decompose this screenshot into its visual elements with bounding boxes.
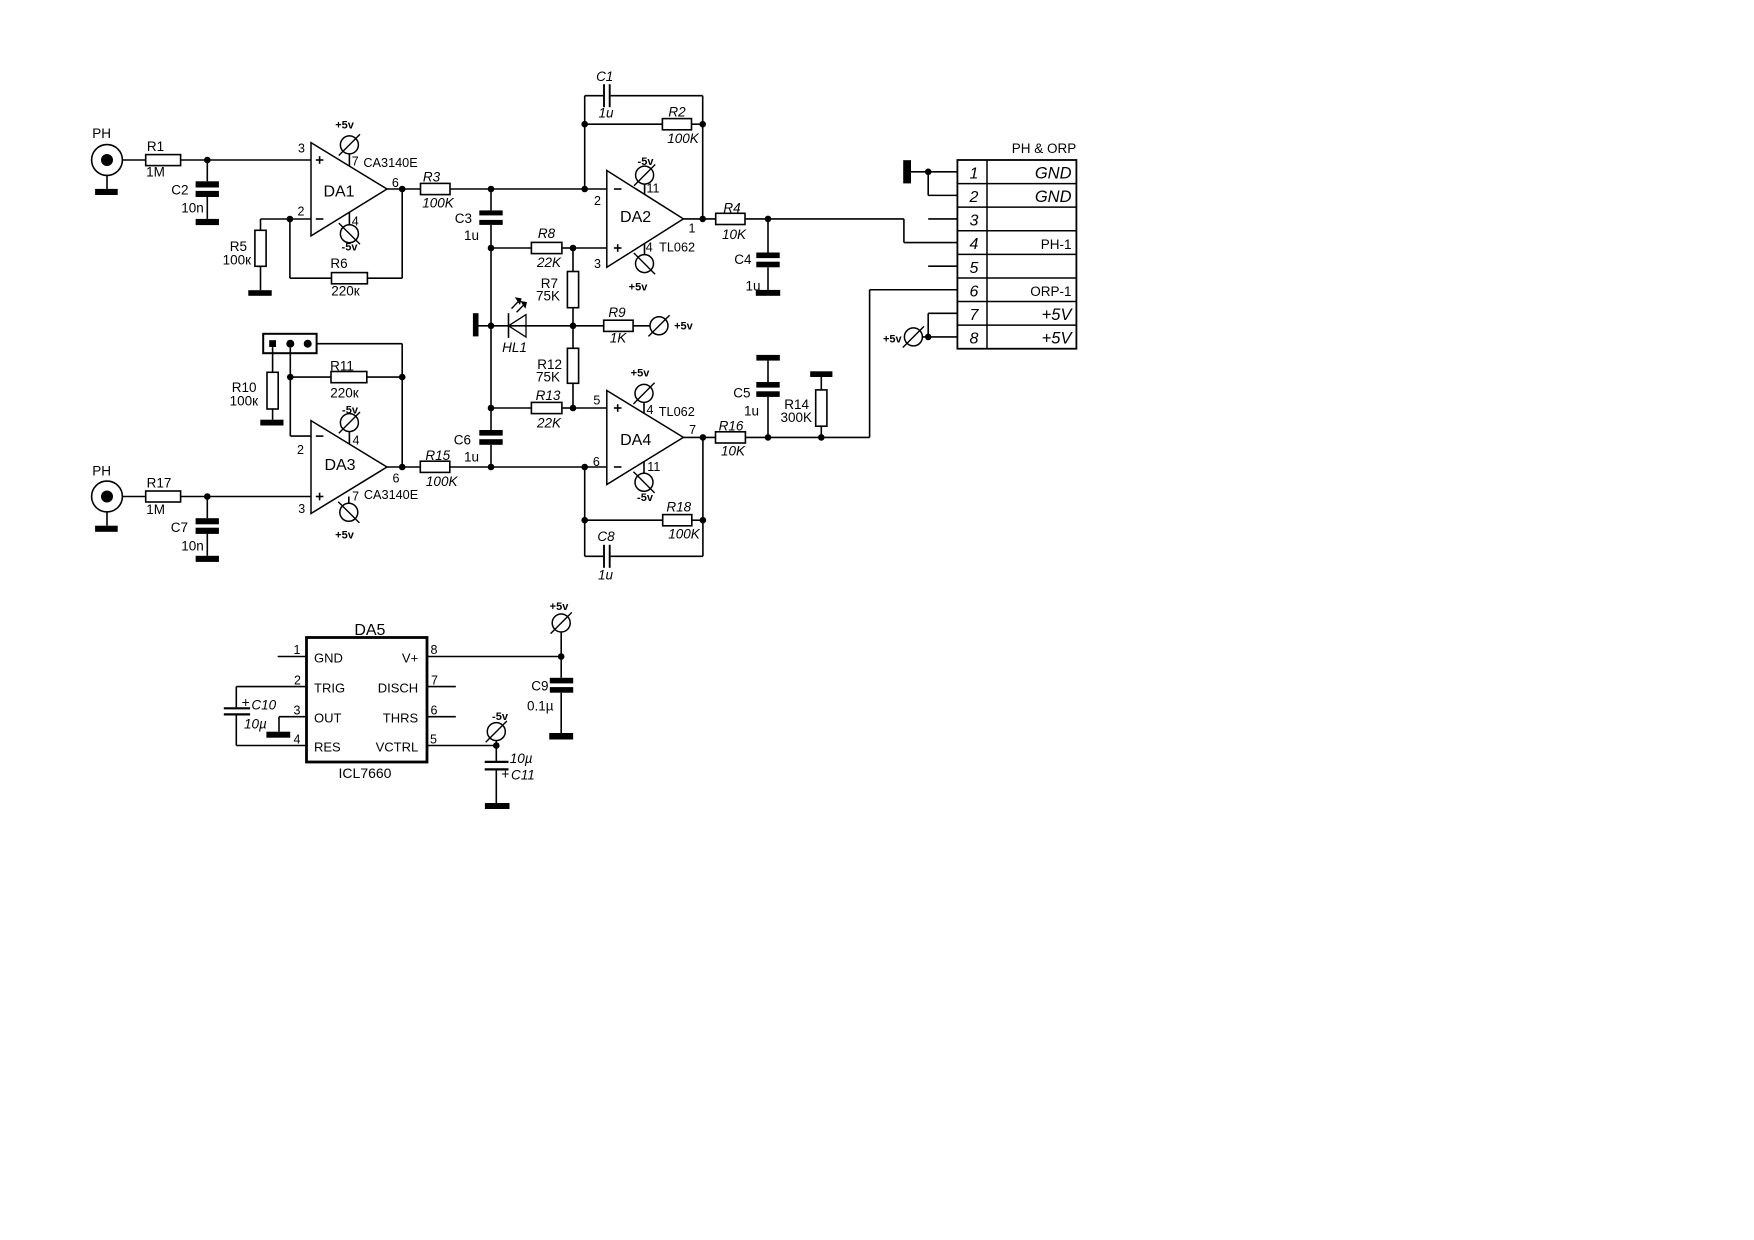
wire R18 row left <box>585 519 663 521</box>
capacitor C9 0.1µ <box>527 657 573 734</box>
wire rail1 mid1 <box>490 248 492 326</box>
svg-text:VCTRL: VCTRL <box>376 740 419 755</box>
LED HL1 <box>502 297 527 355</box>
wire R9 to +5v <box>633 325 650 327</box>
svg-text:100K: 100K <box>422 196 455 211</box>
svg-text:+5v: +5v <box>335 530 355 542</box>
resistor R14 300K <box>780 377 826 437</box>
power +5v (R9) <box>648 315 693 336</box>
svg-text:+5v: +5v <box>883 334 903 346</box>
wire node D to DA2 pin3 <box>573 247 607 249</box>
wire rail1 below C6 <box>490 445 492 467</box>
svg-text:HL1: HL1 <box>502 340 527 355</box>
svg-text:7: 7 <box>352 490 359 504</box>
svg-text:GND: GND <box>1035 188 1072 206</box>
wire R12 to R13 row <box>572 383 574 408</box>
pin 4 stub (DA5 RES) <box>236 733 306 747</box>
wire to connector pin 6 <box>870 289 958 291</box>
svg-text:3: 3 <box>970 213 979 230</box>
svg-text:C10: C10 <box>251 698 276 713</box>
power -5v (DA5 VCTRL) <box>486 711 509 742</box>
svg-text:3: 3 <box>298 502 305 516</box>
wire node D down <box>572 248 574 272</box>
wire to connector pin 4 <box>904 242 958 244</box>
op-amp DA1 CA3140E <box>298 142 418 236</box>
svg-text:PH: PH <box>92 126 111 141</box>
junction rail1/R13 <box>488 405 495 412</box>
jumper header J1 <box>263 334 316 353</box>
wire riser to R11 right <box>401 344 403 377</box>
power -5v (DA1 pin4) <box>339 223 360 254</box>
svg-text:TL062: TL062 <box>659 241 695 255</box>
pin 7 stub (DA1 V+) <box>349 154 358 168</box>
svg-text:DA3: DA3 <box>324 457 355 474</box>
svg-text:C4: C4 <box>734 252 752 267</box>
svg-text:GND: GND <box>1035 165 1072 183</box>
svg-text:2: 2 <box>297 443 304 457</box>
resistor R6 220к <box>330 256 367 298</box>
wire R1 to DA1 pin3 (node A) <box>181 159 311 161</box>
svg-text:RES: RES <box>314 740 341 755</box>
pin 6 stub (DA5 THRS) <box>427 704 456 718</box>
wire rail1 lower <box>490 408 492 430</box>
svg-text:C3: C3 <box>455 211 472 226</box>
svg-text:1u: 1u <box>464 449 479 464</box>
svg-text:1M: 1M <box>146 502 165 517</box>
junction DA4 pin6 <box>581 464 588 471</box>
wire R8 to node D <box>562 247 573 249</box>
power +5v (connector) <box>883 326 924 347</box>
capacitor C1 1u <box>585 69 703 120</box>
wire to DA2 pin2 <box>585 188 607 190</box>
junction DA2 out pin1 <box>689 216 706 236</box>
svg-text:GND: GND <box>314 651 343 666</box>
capacitor C5 1u <box>733 361 779 438</box>
ground (C4) <box>756 290 780 296</box>
svg-text:THRS: THRS <box>383 711 419 726</box>
junction R2 right <box>699 121 706 128</box>
wire node B2 to R8 <box>491 247 531 249</box>
power +5v (DA3 pin7) <box>335 502 359 542</box>
svg-text:+5v: +5v <box>550 601 570 613</box>
wire to pin 8 <box>928 336 957 338</box>
resistor R16 10K <box>716 418 747 458</box>
wire DA5 OUT down <box>278 717 280 732</box>
svg-text:10K: 10K <box>721 444 746 459</box>
ground (PH bottom connector) <box>95 526 118 532</box>
svg-text:220к: 220к <box>330 385 359 400</box>
capacitor C2 10n <box>171 160 219 219</box>
ground bar (C5 top) <box>756 355 780 361</box>
wire rail1 to pin6 leg <box>491 466 585 468</box>
svg-text:+: + <box>242 694 250 710</box>
wire pin 3 stub <box>928 218 957 220</box>
wire R2 row right <box>692 123 703 125</box>
ground (C7) <box>196 556 219 562</box>
wire to pin 1 <box>928 171 957 173</box>
wire DA3 pin2 <box>290 435 311 437</box>
IC DA5 ICL7660 (body) <box>307 622 428 781</box>
junction R11 right <box>399 374 406 381</box>
wire pin7 to pin8 leg <box>927 313 929 337</box>
power +5v (DA5 V+) <box>550 601 572 634</box>
svg-text:10n: 10n <box>181 201 204 216</box>
capacitor C3 1u <box>455 210 503 243</box>
svg-text:7: 7 <box>970 307 980 324</box>
op-amp DA2 TL062 <box>594 171 695 272</box>
wire node B to C1 leg <box>491 188 585 190</box>
junction R13 right <box>570 405 577 412</box>
junction node B (C3 top) <box>488 186 495 193</box>
resistor R13 22K <box>531 388 562 431</box>
svg-text:1u: 1u <box>744 403 759 418</box>
svg-text:4: 4 <box>294 733 301 747</box>
resistor R18 100K <box>663 499 701 541</box>
pin 4 stub (DA3 V-) <box>349 432 359 448</box>
svg-text:3: 3 <box>594 257 601 271</box>
wire feedback riser <box>401 189 403 278</box>
junction R11 left <box>287 374 294 381</box>
svg-text:10n: 10n <box>181 538 204 553</box>
wire DA3 pin2 leg <box>289 377 291 436</box>
svg-text:ICL7660: ICL7660 <box>339 765 392 781</box>
svg-text:R13: R13 <box>536 388 561 403</box>
svg-text:C7: C7 <box>171 520 188 535</box>
svg-text:R18: R18 <box>666 499 691 514</box>
ground (R10) <box>260 420 283 426</box>
svg-text:ORP-1: ORP-1 <box>1030 284 1071 299</box>
power -5v (DA4 pin11) <box>633 472 654 504</box>
svg-text:DA4: DA4 <box>620 432 651 449</box>
svg-text:R4: R4 <box>723 200 740 215</box>
wire PH to R1 <box>122 159 145 161</box>
svg-text:100K: 100K <box>668 527 701 542</box>
svg-text:7: 7 <box>431 674 438 688</box>
wire +5v to V+ node <box>560 632 562 657</box>
svg-text:R9: R9 <box>608 305 626 320</box>
junction VCTRL node <box>493 742 500 749</box>
svg-text:DA1: DA1 <box>323 184 354 201</box>
wire to pin 2 <box>928 194 957 196</box>
wire riser to DA3 out <box>401 377 403 467</box>
ground (DA5 OUT) <box>266 732 290 738</box>
svg-text:0.1µ: 0.1µ <box>527 699 554 714</box>
svg-text:1: 1 <box>970 165 979 182</box>
resistor R5 100к <box>223 219 290 290</box>
wire PH to ground <box>106 175 108 189</box>
svg-text:-5v: -5v <box>492 711 509 723</box>
svg-text:1u: 1u <box>598 105 614 120</box>
svg-text:4: 4 <box>647 403 654 417</box>
resistor R7 75K <box>536 272 579 308</box>
ground (PH top connector) <box>95 189 118 195</box>
svg-text:1K: 1K <box>610 330 628 345</box>
svg-text:CA3140E: CA3140E <box>364 488 418 502</box>
pin 7 stub (DA5 DISCH) <box>427 674 456 688</box>
svg-text:R15: R15 <box>425 448 450 463</box>
connector table (outline) <box>957 160 1076 349</box>
svg-text:75K: 75K <box>536 289 560 304</box>
junction V+ node <box>558 653 565 660</box>
wire +5v symbol to node <box>922 336 928 338</box>
svg-text:DA5: DA5 <box>354 622 385 639</box>
svg-text:8: 8 <box>431 643 438 657</box>
svg-text:R11: R11 <box>330 358 354 373</box>
pin 4 stub (DA2 V+) <box>645 241 653 255</box>
svg-text:10µ: 10µ <box>510 751 533 766</box>
ground (connector, vertical bar) <box>903 160 911 183</box>
svg-text:100K: 100K <box>667 131 700 146</box>
wire node G to ORP riser <box>821 436 869 438</box>
svg-text:C1: C1 <box>596 69 613 84</box>
wire rail1 to R13 <box>491 407 531 409</box>
svg-text:+5V: +5V <box>1042 306 1074 324</box>
svg-text:1u: 1u <box>598 568 614 583</box>
junction DA3 out pin6 <box>393 464 406 486</box>
svg-text:1: 1 <box>689 221 696 235</box>
svg-text:1: 1 <box>294 643 301 657</box>
svg-text:-5v: -5v <box>637 492 654 504</box>
wire DA1 pin2 <box>290 218 311 220</box>
wire C8 left leg <box>584 520 586 556</box>
wire gnd down <box>927 172 929 196</box>
svg-text:11: 11 <box>647 460 660 474</box>
svg-text:R3: R3 <box>423 169 441 184</box>
junction node A2 <box>204 493 211 500</box>
wire feedback to R6 <box>290 277 332 279</box>
svg-text:300K: 300K <box>780 410 812 425</box>
op-amp DA4 TL062 <box>593 391 695 485</box>
svg-text:5: 5 <box>430 733 437 747</box>
svg-text:2: 2 <box>294 674 301 688</box>
svg-text:2: 2 <box>298 205 305 219</box>
pin 11 stub (DA2 V-) <box>645 181 660 195</box>
junction node A <box>204 157 211 164</box>
resistor R11 220к <box>330 358 367 400</box>
svg-text:75K: 75K <box>536 369 560 384</box>
svg-text:-5v: -5v <box>342 242 359 254</box>
junction DA4 out pin7 <box>689 423 706 441</box>
svg-text:R16: R16 <box>719 418 744 433</box>
capacitor C4 1u <box>734 219 779 294</box>
pin 8 stub (DA5 V+) <box>427 643 561 657</box>
wire rail1 upper <box>490 189 492 210</box>
svg-text:100к: 100к <box>223 253 252 268</box>
svg-text:OUT: OUT <box>314 711 342 726</box>
wire node E down <box>572 326 574 349</box>
wire pin 7 stub <box>928 312 957 314</box>
svg-text:2: 2 <box>594 194 601 208</box>
svg-text:CA3140E: CA3140E <box>363 156 417 170</box>
wire DA4 out leg down <box>702 437 704 520</box>
capacitor C11 10µ (polarized) <box>485 746 535 804</box>
svg-text:6: 6 <box>393 471 400 485</box>
junction DA1 pin2 <box>287 216 294 223</box>
resistor R10 100к <box>230 347 279 420</box>
svg-text:100K: 100K <box>426 474 459 489</box>
svg-text:1u: 1u <box>464 228 479 243</box>
power -5v (DA2 pin11) <box>634 156 655 186</box>
node PH (BNC connector, bottom) <box>92 464 123 512</box>
svg-text:10µ: 10µ <box>244 717 267 732</box>
svg-text:+5v: +5v <box>631 367 651 379</box>
resistor R12 75K <box>536 348 579 384</box>
wire node F to DA4 pin5 <box>573 407 607 409</box>
wire R11 to riser <box>367 376 402 378</box>
svg-text:220к: 220к <box>331 283 360 298</box>
ground (C9) <box>549 733 573 740</box>
svg-text:R8: R8 <box>538 226 556 241</box>
ground (R5) <box>248 290 271 296</box>
svg-text:3: 3 <box>294 704 301 718</box>
wire rail1 below C3 <box>490 225 492 248</box>
wire node C to riser <box>768 218 904 220</box>
svg-text:+5v: +5v <box>629 281 649 293</box>
svg-text:2: 2 <box>969 189 979 206</box>
svg-text:4: 4 <box>646 241 653 255</box>
wire to DA4 pin6 <box>585 466 607 468</box>
wire feedback down <box>289 219 291 278</box>
node PH (BNC connector, pH probe input, top) <box>92 126 123 175</box>
svg-text:4: 4 <box>970 236 979 253</box>
power +5v (DA1 pin7) <box>335 119 360 155</box>
pin 5 stub (DA5 VCTRL) <box>427 733 496 747</box>
svg-text:10K: 10K <box>722 227 747 242</box>
wire PH2 to ground <box>106 512 108 526</box>
svg-text:100к: 100к <box>230 394 259 409</box>
wire node G to R14 <box>768 436 821 438</box>
svg-text:11: 11 <box>647 181 660 195</box>
svg-text:5: 5 <box>593 393 600 407</box>
svg-text:+5V: +5V <box>1042 330 1074 348</box>
junction rail1/R8 <box>488 245 495 252</box>
svg-text:-5v: -5v <box>638 156 655 168</box>
power +5v (DA4 pin4) <box>631 367 655 404</box>
pin 2 stub (DA5 TRIG) <box>236 674 306 688</box>
pin 7 stub (DA3 V+) <box>349 490 359 504</box>
op-amp DA3 CA3140E <box>297 421 418 516</box>
junction node G (C5) <box>765 434 772 441</box>
wire gnd bar to junction <box>911 171 928 173</box>
junction R14 bottom <box>818 434 825 441</box>
svg-text:C5: C5 <box>733 386 750 401</box>
wire R15 to rail1 <box>450 466 491 468</box>
pin 3 stub (DA5 OUT) <box>279 704 307 718</box>
junction node C (C4 top) <box>765 216 772 223</box>
wire rail1 mid2 <box>490 326 492 408</box>
svg-text:4: 4 <box>353 433 360 447</box>
junction R18 left <box>581 517 588 524</box>
wire R13 to node F <box>562 407 573 409</box>
svg-text:R5: R5 <box>230 239 247 254</box>
svg-text:22K: 22K <box>536 416 562 431</box>
capacitor C6 1u <box>454 430 503 464</box>
svg-text:+5v: +5v <box>674 320 694 332</box>
svg-text:TRIG: TRIG <box>314 681 345 696</box>
junction R18 right <box>700 517 707 524</box>
capacitor C8 1u <box>585 529 703 583</box>
wire riser down (PH-1) <box>903 219 905 243</box>
resistor R1 1M <box>146 139 181 179</box>
svg-text:22K: 22K <box>536 255 562 270</box>
wire R3 to node B <box>450 188 491 190</box>
wire ORP riser <box>869 290 871 438</box>
wire R4 to node C <box>745 218 768 220</box>
wire DA1 output <box>387 188 421 190</box>
svg-text:V+: V+ <box>402 651 418 666</box>
junction gnd node <box>925 168 932 175</box>
svg-text:C2: C2 <box>171 182 188 197</box>
ground (LED, vertical bar) <box>473 313 479 336</box>
wire R18 row right <box>692 519 703 521</box>
resistor R17 1M <box>146 475 181 517</box>
svg-text:TL062: TL062 <box>659 405 695 419</box>
capacitor C10 10µ (polarized) <box>224 687 277 746</box>
junction rail1/LED <box>488 323 495 330</box>
wire LED to R9 <box>573 325 604 327</box>
wire jumper to riser <box>316 343 402 345</box>
capacitor C7 10n <box>171 497 219 556</box>
wire DA2 output <box>683 218 715 220</box>
wire LED row <box>479 325 574 327</box>
wire DA4 output <box>683 436 715 438</box>
svg-text:C6: C6 <box>454 433 471 448</box>
resistor R15 100K <box>420 448 458 489</box>
resistor R8 22K <box>531 226 562 270</box>
svg-text:DISCH: DISCH <box>378 681 418 696</box>
svg-text:+5v: +5v <box>335 119 355 131</box>
svg-text:+: + <box>501 766 509 782</box>
svg-text:6: 6 <box>431 704 438 718</box>
wire C8 right leg <box>702 520 704 556</box>
svg-text:DA2: DA2 <box>620 209 651 226</box>
resistor R2 100K <box>662 105 699 146</box>
resistor R3 100K <box>421 169 455 210</box>
junction rail1/out row <box>488 464 495 471</box>
junction node E (LED row) <box>570 323 577 330</box>
junction node D <box>570 245 577 252</box>
svg-text:PH: PH <box>92 464 111 479</box>
svg-text:1M: 1M <box>146 164 165 179</box>
svg-text:5: 5 <box>970 260 979 277</box>
junction +5V node <box>925 334 932 341</box>
power +5v (DA2 pin4) <box>629 253 655 293</box>
resistor R4 10K <box>716 200 747 242</box>
wire R6 to output leg <box>367 277 402 279</box>
wire pin 5 stub <box>928 265 957 267</box>
svg-text:R6: R6 <box>330 256 347 271</box>
svg-text:PH & ORP: PH & ORP <box>1012 141 1077 156</box>
wire PH2 to R17 <box>122 496 145 498</box>
wire DA3 output <box>387 466 420 468</box>
svg-text:C8: C8 <box>597 529 615 544</box>
junction DA1 out pin6 <box>392 176 406 192</box>
pin 4 stub (DA1 V-) <box>349 212 358 228</box>
svg-text:8: 8 <box>970 331 979 348</box>
wire R11 row <box>290 376 331 378</box>
wire -5v stub <box>495 741 497 746</box>
wire C1 left leg <box>584 96 586 189</box>
svg-text:6: 6 <box>970 283 979 300</box>
junction R2 left <box>581 121 588 128</box>
ground (C11) <box>485 803 510 809</box>
wire jumper mid pin down <box>289 348 291 377</box>
wire R2 row left <box>585 123 663 125</box>
svg-text:3: 3 <box>298 142 305 156</box>
junction C1 leg <box>581 186 588 193</box>
pin 1 stub (DA5 GND) <box>278 643 307 657</box>
svg-text:R17: R17 <box>147 475 172 490</box>
